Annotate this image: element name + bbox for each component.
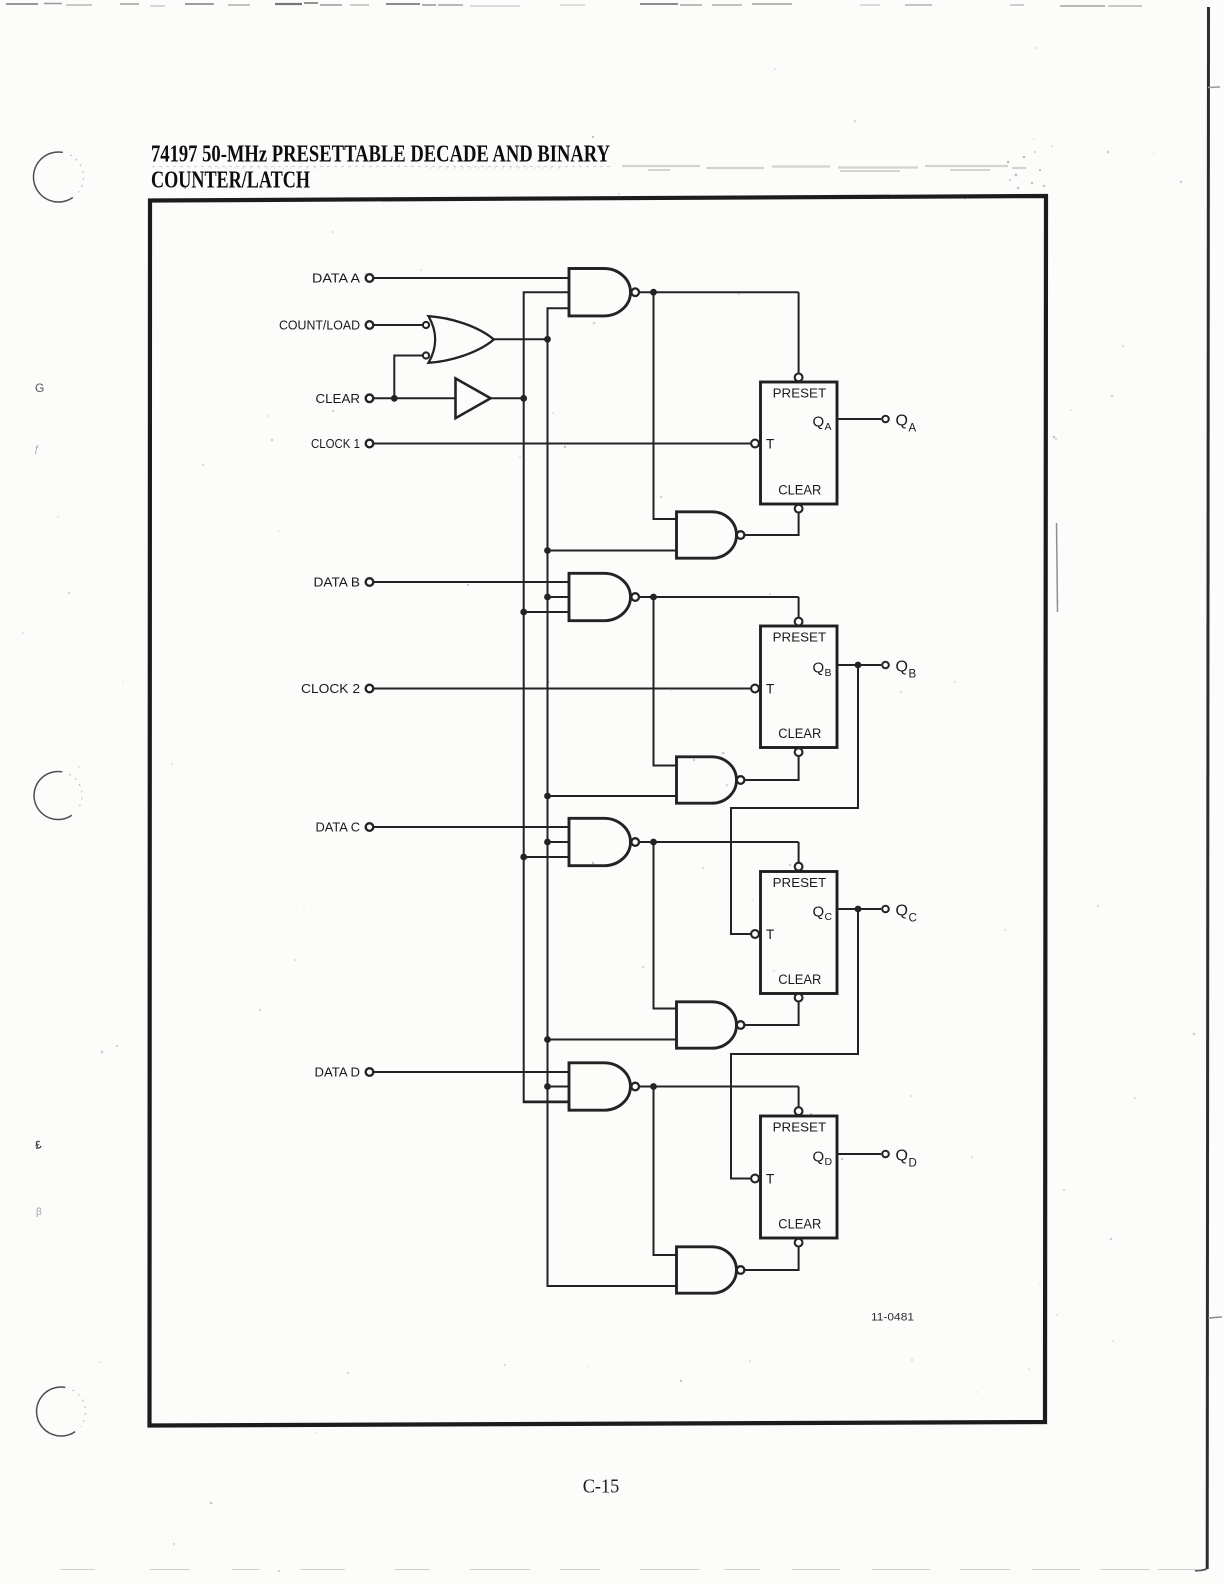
svg-text:B: B — [825, 667, 832, 679]
svg-text:COUNT/LOAD: COUNT/LOAD — [279, 318, 360, 333]
svg-text:DATA A: DATA A — [312, 271, 360, 286]
svg-text:CLEAR: CLEAR — [778, 972, 821, 988]
svg-text:T: T — [766, 437, 774, 452]
svg-text:PRESET: PRESET — [773, 630, 827, 644]
svg-text:CLOCK 2: CLOCK 2 — [301, 681, 360, 696]
svg-text:T: T — [766, 927, 774, 942]
svg-text:C: C — [825, 911, 833, 923]
svg-text:ƒ: ƒ — [34, 444, 40, 455]
svg-text:A: A — [909, 423, 917, 435]
svg-text:T: T — [766, 1172, 774, 1187]
svg-text:Q: Q — [896, 1148, 908, 1165]
svg-text:C: C — [909, 913, 917, 925]
svg-text:CLEAR: CLEAR — [778, 1217, 821, 1233]
svg-text:DATA C: DATA C — [316, 820, 361, 835]
svg-text:Q: Q — [813, 1148, 825, 1165]
svg-text:CLOCK 1: CLOCK 1 — [311, 436, 360, 451]
svg-text:Q: Q — [896, 413, 908, 430]
svg-text:Q: Q — [813, 903, 825, 920]
svg-text:CLEAR: CLEAR — [778, 726, 821, 742]
svg-text:Q: Q — [813, 413, 825, 430]
svg-text:PRESET: PRESET — [773, 386, 827, 400]
svg-text:β: β — [36, 1207, 42, 1218]
svg-text:CLEAR: CLEAR — [778, 483, 821, 499]
svg-text:74197 50-MHz PRESETTABLE DECAD: 74197 50-MHz PRESETTABLE DECADE AND BINA… — [151, 142, 610, 168]
svg-text:CLEAR: CLEAR — [316, 391, 361, 406]
svg-text:DATA D: DATA D — [315, 1065, 361, 1080]
svg-text:PRESET: PRESET — [773, 876, 827, 890]
svg-text:D: D — [825, 1156, 833, 1168]
svg-text:T: T — [766, 682, 774, 697]
svg-text:B: B — [909, 669, 917, 681]
svg-text:Q: Q — [813, 659, 825, 676]
svg-text:PRESET: PRESET — [773, 1120, 827, 1134]
svg-text:Q: Q — [896, 659, 908, 676]
svg-text:D: D — [909, 1158, 917, 1170]
svg-text:DATA B: DATA B — [314, 575, 361, 590]
svg-text:G: G — [35, 381, 44, 395]
svg-text:Q: Q — [896, 903, 908, 920]
svg-text:A: A — [825, 421, 832, 433]
svg-text:11-0481: 11-0481 — [871, 1312, 914, 1324]
svg-text:C-15: C-15 — [583, 1476, 620, 1498]
svg-text:COUNTER/LATCH: COUNTER/LATCH — [151, 168, 310, 194]
